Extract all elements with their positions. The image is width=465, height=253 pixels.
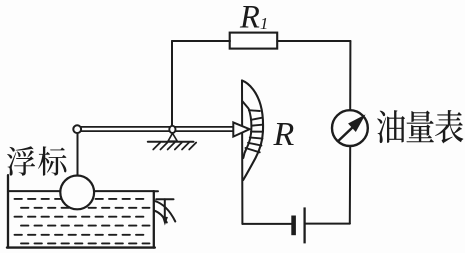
svg-text:R: R: [273, 116, 295, 153]
svg-text:R1: R1: [239, 0, 268, 35]
